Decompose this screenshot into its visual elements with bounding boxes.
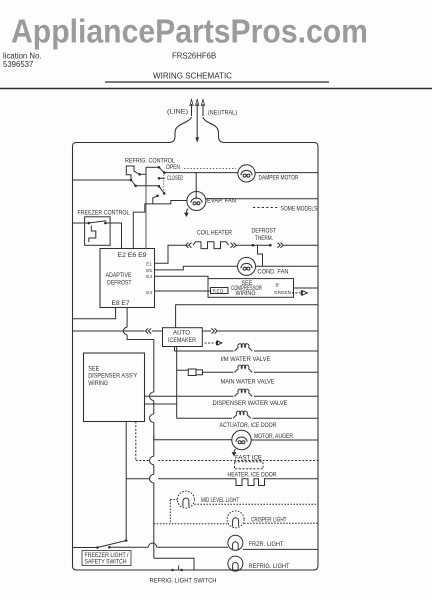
wire pin2 to plug xyxy=(177,370,189,404)
dispenser box tap wire xyxy=(145,403,177,405)
plug bump left side xyxy=(169,117,192,143)
connector chevrons left xyxy=(186,243,192,248)
ground lead xyxy=(196,104,198,139)
auger ground xyxy=(234,449,236,453)
svg-text:RED: RED xyxy=(213,289,225,294)
icemaker pin2 down xyxy=(176,347,178,371)
wire defrost to right bus xyxy=(284,244,318,246)
dotted some-models wire xyxy=(184,167,236,169)
evap fan motor xyxy=(186,192,318,214)
ground lead top arrowhead xyxy=(196,100,199,106)
defrost contact dot left xyxy=(252,244,255,247)
svg-text:AUTO: AUTO xyxy=(173,330,190,337)
fast ice dashed box xyxy=(235,462,264,469)
frzr light lamp xyxy=(228,535,243,550)
svg-text:FAST ICE: FAST ICE xyxy=(235,455,262,462)
dispenser solid pin down xyxy=(125,422,127,479)
safety switch pivot dot xyxy=(125,539,128,542)
full width rule xyxy=(0,88,432,90)
freezer control box xyxy=(85,217,111,246)
svg-text:MOTOR, AUGER: MOTOR, AUGER xyxy=(254,433,293,440)
crisper light lamp xyxy=(227,511,244,528)
wire E4 to RED xyxy=(155,290,211,292)
pin continues to safety switch xyxy=(125,479,127,541)
icemaker aux dashed arrow xyxy=(205,342,216,344)
evap fan ground xyxy=(186,209,188,214)
mid level light lamp xyxy=(154,491,318,528)
wire E5 to cond fan xyxy=(155,266,238,270)
frzr light wire with hop xyxy=(109,543,228,547)
icemaker feed from left bus xyxy=(73,330,145,332)
wire icemaker to right bus xyxy=(202,330,318,332)
main water valve coil xyxy=(235,365,253,372)
svg-text:E1: E1 xyxy=(146,261,152,266)
wire E8 to left bus xyxy=(73,308,116,319)
green connector arrow xyxy=(301,290,307,295)
heater ice door circuit xyxy=(126,422,318,541)
refrig light switch bar xyxy=(178,566,180,571)
freezer contact dot right xyxy=(104,222,107,225)
refrig switch dot left xyxy=(171,569,174,572)
compressor wiring box xyxy=(155,276,319,297)
svg-text:REFRIG. LIGHT: REFRIG. LIGHT xyxy=(249,563,290,570)
auto icemaker box xyxy=(163,328,203,347)
contact dot F closed xyxy=(158,177,161,180)
svg-text:E4: E4 xyxy=(146,290,152,295)
adaptive defrost control box xyxy=(100,249,155,308)
pin2 to actuator line xyxy=(176,404,178,418)
svg-text:ADAPTIVE: ADAPTIVE xyxy=(106,272,132,279)
wire im valve to right bus xyxy=(254,350,318,352)
wire to E2 xyxy=(105,223,121,249)
actuator coil xyxy=(233,411,251,418)
svg-text:WIRING SCHEMATIC: WIRING SCHEMATIC xyxy=(153,72,232,81)
line lead xyxy=(191,104,193,116)
svg-text:MID LEVEL LIGHT: MID LEVEL LIGHT xyxy=(201,497,239,504)
coil heater circuit xyxy=(155,242,319,266)
contact dot G xyxy=(158,185,161,188)
damper motor M1 xyxy=(238,165,318,182)
fast ice dashed circuit xyxy=(136,422,318,469)
cond fan motor xyxy=(155,257,319,275)
svg-text:EVAP. FAN: EVAP. FAN xyxy=(207,197,236,204)
main water valve line xyxy=(205,371,234,373)
svg-text:ICEMAKER: ICEMAKER xyxy=(168,337,197,344)
refrig control common bus xyxy=(145,167,147,186)
freezer contact dot left xyxy=(88,222,91,225)
RED terminal box xyxy=(211,288,229,294)
contact dot C xyxy=(134,185,137,188)
svg-text:SOME MODELS: SOME MODELS xyxy=(281,206,318,213)
defrost thermostat bimetal xyxy=(258,245,263,266)
wire heater to right bus xyxy=(266,478,318,480)
safety switch contact dot left xyxy=(96,546,99,549)
wire frzr lamp to right bus xyxy=(243,548,318,550)
wire auger to right bus xyxy=(251,439,318,441)
title underline xyxy=(105,81,329,83)
defrost contact dot right xyxy=(269,244,272,247)
defrost thermostat contacts wire xyxy=(253,244,270,246)
svg-text:E3: E3 xyxy=(146,274,152,279)
svg-text:DISPENSER ASS'Y: DISPENSER ASS'Y xyxy=(88,372,137,379)
wire E3 to compressor box xyxy=(155,276,209,278)
svg-text:AppliancePartsPros.com: AppliancePartsPros.com xyxy=(11,14,368,51)
neutral lead xyxy=(202,104,204,116)
svg-text:SEE: SEE xyxy=(88,365,99,372)
wire E7 down with hop xyxy=(123,308,153,340)
svg-text:I/M WATER VALVE: I/M WATER VALVE xyxy=(221,356,271,363)
fast ice dashed line xyxy=(136,460,318,462)
some models dashed note xyxy=(253,207,278,209)
svg-text:DAMPER MOTOR: DAMPER MOTOR xyxy=(259,175,299,182)
wire B' to right bus xyxy=(294,287,319,289)
heater element bumps xyxy=(233,479,266,486)
refrig switch dot right xyxy=(180,569,183,572)
wire bus to freezer control xyxy=(73,222,89,224)
svg-text:COND. FAN: COND. FAN xyxy=(258,268,289,275)
refrig light lamp xyxy=(228,556,243,571)
main enclosure outline left+bottom+right xyxy=(73,143,319,571)
svg-text:E5: E5 xyxy=(146,268,152,273)
svg-text:THERM.: THERM. xyxy=(255,235,273,242)
wire actuator to right bus xyxy=(253,417,319,419)
svg-text:SAFETY SWITCH: SAFETY SWITCH xyxy=(85,559,127,566)
svg-text:(NEUTRAL): (NEUTRAL) xyxy=(208,110,237,117)
freezer switch arm xyxy=(89,221,106,223)
freezer light circuit xyxy=(73,535,319,571)
contact dot I xyxy=(156,195,159,198)
heater line xyxy=(126,478,233,480)
evap feed tap from damper wire xyxy=(195,173,197,199)
svg-text:OPEN: OPEN xyxy=(166,164,180,171)
svg-text:FRZR. LIGHT: FRZR. LIGHT xyxy=(249,541,284,548)
svg-text:FREEZER CONTROL: FREEZER CONTROL xyxy=(78,210,131,217)
svg-text:E2 E6 E9: E2 E6 E9 xyxy=(118,252,148,259)
svg-text:MAIN WATER VALVE: MAIN WATER VALVE xyxy=(221,378,275,385)
wire cond fan to right bus xyxy=(256,265,319,267)
svg-text:(LINE): (LINE) xyxy=(167,109,188,116)
OPEN switch arm xyxy=(159,167,164,172)
wire C to lower contact G xyxy=(136,185,159,187)
auger feed line xyxy=(154,436,232,440)
wire dispenser valve to right bus xyxy=(254,395,318,397)
contact dot B xyxy=(130,179,133,182)
wire E1 to coil heater xyxy=(155,245,188,263)
icemaker pin1 to im water valve line xyxy=(175,347,234,352)
safety switch contact dot right xyxy=(108,546,111,549)
neutral arrowhead xyxy=(201,100,204,106)
coil heater element xyxy=(193,242,229,249)
auger motor circle xyxy=(232,430,251,449)
svg-text:CLOSED: CLOSED xyxy=(167,175,183,182)
contact dot H xyxy=(163,192,166,195)
svg-text:COIL HEATER: COIL HEATER xyxy=(197,230,233,237)
plug bump right side xyxy=(203,117,225,143)
contact dot D open xyxy=(158,166,161,169)
wire from left bus to refrig control xyxy=(73,179,132,181)
svg-text:DEFROST: DEFROST xyxy=(252,227,277,234)
safety switch arm xyxy=(98,541,127,548)
svg-text:WIRING: WIRING xyxy=(236,290,256,297)
svg-text:DISPENSER WATER VALVE: DISPENSER WATER VALVE xyxy=(213,400,288,407)
freezer light safety switch label box xyxy=(82,551,131,566)
svg-text:WIRING: WIRING xyxy=(88,380,108,387)
contact I wire to E6 route xyxy=(153,196,158,204)
green lead dashes xyxy=(292,292,301,294)
switch arm to contact A xyxy=(134,171,146,174)
svg-text:5396537: 5396537 xyxy=(3,60,33,69)
actuator line xyxy=(177,417,232,419)
chevrons into icemaker xyxy=(145,328,151,333)
connector chevrons right2 xyxy=(278,243,284,248)
wire main valve to right bus xyxy=(254,371,318,373)
svg-text:ACTUATOR, ICE DOOR: ACTUATOR, ICE DOOR xyxy=(220,422,278,429)
mechanical link dashed xyxy=(163,175,165,192)
svg-text:REFRIG. LIGHT SWITCH: REFRIG. LIGHT SWITCH xyxy=(150,577,217,584)
wire to OPEN contact xyxy=(146,166,159,168)
mid level lamp filament xyxy=(183,498,189,507)
svg-text:FRS26HF6B: FRS26HF6B xyxy=(172,52,216,61)
dispenser valve coil xyxy=(235,389,253,396)
lower switch arm G-H xyxy=(159,186,164,193)
closed contact stub xyxy=(159,177,165,179)
line arrowhead xyxy=(190,100,193,106)
im water valve coil xyxy=(235,344,253,351)
dispenser dashed pin down xyxy=(135,422,137,461)
safety switch feed xyxy=(73,547,98,549)
center bus down with hops xyxy=(150,340,154,436)
connector chevrons right xyxy=(231,243,237,248)
E6 route staircase xyxy=(133,201,187,249)
refrig light branch xyxy=(154,558,194,570)
freezer bimetal xyxy=(89,226,96,243)
damper feed wire xyxy=(164,172,238,174)
svg-text:E8 E7: E8 E7 xyxy=(112,300,131,307)
chevrons out of icemaker xyxy=(212,328,218,333)
wire jog symbol xyxy=(126,166,134,180)
svg-text:DEFROST: DEFROST xyxy=(107,280,132,287)
wire to defrost thermostat xyxy=(237,244,253,246)
contact dot A xyxy=(138,173,141,176)
ground arrowhead xyxy=(195,137,199,143)
svg-text:HEATER, ICE DOOR: HEATER, ICE DOOR xyxy=(228,472,277,479)
svg-text:B': B' xyxy=(276,283,280,288)
see dispenser assy wiring box xyxy=(84,353,145,422)
crisper lamp filament xyxy=(233,518,239,527)
switch arm B to C xyxy=(131,180,136,186)
contact dot E pivot xyxy=(163,171,166,174)
E9 drop from common xyxy=(145,186,147,249)
svg-text:CRISPER LIGHT: CRISPER LIGHT xyxy=(251,517,287,524)
dispenser valve line from box xyxy=(145,395,234,397)
compressor feed line xyxy=(176,305,318,328)
svg-text:GREEN: GREEN xyxy=(274,290,291,295)
inline plug connector xyxy=(188,369,196,376)
